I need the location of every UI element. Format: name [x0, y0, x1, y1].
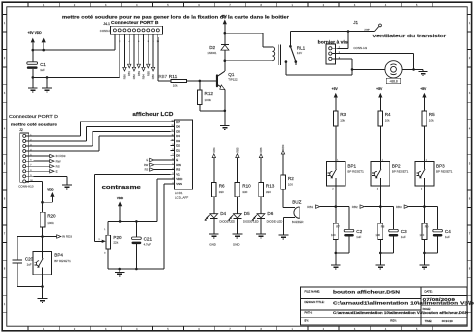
- pushbutton BP2: [371, 162, 390, 186]
- svg-text:2: 2: [173, 178, 174, 180]
- wire +5V to coil top: [225, 32, 263, 34]
- wire J4 pin9: [152, 37, 154, 67]
- P20 wiper arrow: [102, 240, 106, 243]
- terminal RB5 arrow: [147, 64, 150, 68]
- wire R3 to BP1: [335, 126, 337, 162]
- svg-text:BP2: BP2: [392, 163, 401, 168]
- wire bornier pin3: [338, 58, 352, 60]
- svg-text:10k: 10k: [340, 119, 345, 123]
- wire J4 pin4: [128, 37, 130, 64]
- LED D5: [228, 214, 241, 221]
- relay contact dot: [295, 60, 298, 63]
- wire J2 pin2 to LCD D6: [33, 140, 86, 142]
- svg-text:DESIGN TITLE:: DESIGN TITLE:: [305, 300, 325, 304]
- wire R9 bottom: [423, 239, 425, 253]
- svg-text:RB0: RB0: [122, 74, 126, 80]
- svg-text:P20: P20: [113, 235, 122, 240]
- bornier pin numbers: [339, 47, 341, 60]
- svg-text:RB3: RB3: [396, 205, 402, 209]
- wire J2 terminal RW: [33, 160, 49, 162]
- svg-text:00:34:29: 00:34:29: [442, 319, 453, 323]
- svg-text:R3: R3: [340, 112, 346, 117]
- svg-text:1uF: 1uF: [27, 263, 32, 267]
- svg-text:REV:: REV:: [390, 318, 397, 322]
- svg-text:DIODE-LED: DIODE-LED: [267, 220, 283, 224]
- wire C20 branch: [17, 236, 42, 238]
- wire motor right: [402, 68, 423, 70]
- junction dot: [118, 268, 121, 271]
- ground: [420, 264, 430, 266]
- terminal RB1 arrow: [128, 64, 131, 68]
- svg-text:22k: 22k: [113, 240, 118, 244]
- terminal RB2 arrow: [132, 67, 135, 71]
- svg-text:BUZ: BUZ: [292, 200, 301, 205]
- ground: [42, 87, 52, 89]
- wire to IN RD3: [43, 236, 57, 238]
- wire R11 to Q1 base: [187, 80, 216, 82]
- terminal RS arrow: [150, 168, 154, 171]
- wire D4 cathode: [213, 219, 215, 234]
- svg-text:10k: 10k: [429, 119, 434, 123]
- ground: [375, 264, 385, 266]
- resistor R20: [40, 212, 45, 227]
- wire to C2: [336, 206, 349, 208]
- wire gnd stub: [379, 253, 381, 265]
- svg-text:R4: R4: [385, 112, 391, 117]
- svg-text:LCD_AFF: LCD_AFF: [175, 195, 189, 199]
- svg-text:D1: D1: [176, 149, 180, 153]
- ground: [331, 264, 341, 266]
- terminal RB0 arrow: [123, 67, 126, 71]
- wire BP4 top: [42, 237, 44, 252]
- resistor R2: [281, 175, 286, 189]
- terminal RW arrow: [50, 159, 54, 162]
- svg-text:RB5: RB5: [146, 70, 150, 76]
- svg-text:RB2: RB2: [132, 74, 136, 80]
- terminal RB0 arrow: [281, 150, 284, 154]
- wire relay out: [285, 62, 287, 75]
- wire V1 to wiper: [94, 173, 170, 175]
- svg-text:6: 6: [173, 159, 174, 161]
- wire J4 pin7: [143, 37, 145, 67]
- wire relay pole riser: [289, 32, 291, 47]
- svg-text:R20: R20: [47, 214, 56, 219]
- wire GND rail to J4 pin2: [33, 76, 120, 78]
- resistor R4: [378, 111, 383, 126]
- pushbutton BP3: [415, 162, 434, 186]
- svg-text:1: 1: [173, 183, 174, 185]
- bornier pins: [329, 47, 332, 61]
- wire VDD rail: [108, 220, 157, 222]
- junction dot: [199, 80, 202, 83]
- svg-text:BP1: BP1: [347, 163, 356, 168]
- svg-text:FILE NAME:: FILE NAME:: [305, 289, 321, 293]
- ground: [28, 87, 38, 89]
- svg-text:9: 9: [173, 144, 174, 146]
- svg-text:VDD: VDD: [47, 187, 54, 191]
- relay RL1 blade: [290, 46, 295, 61]
- wire R13 to D6: [260, 197, 262, 214]
- terminal RB2 arrow: [360, 205, 364, 208]
- svg-text:RS: RS: [176, 168, 180, 172]
- wire R12 bottom: [199, 105, 201, 111]
- svg-text:R8: R8: [381, 225, 385, 229]
- wire RW to LCD: [154, 164, 170, 166]
- power VDD arrow: [118, 201, 122, 206]
- wire R8 bottom: [379, 239, 381, 253]
- resistor R9: [422, 223, 427, 239]
- svg-text:VDD: VDD: [176, 177, 182, 181]
- wire C1 top: [32, 50, 34, 62]
- ground: [62, 184, 72, 186]
- capacitor C2: [344, 229, 354, 232]
- svg-text:+5V: +5V: [332, 87, 339, 91]
- svg-text:2: 2: [30, 139, 31, 141]
- svg-text:JUMP: JUMP: [364, 30, 370, 32]
- terminal RB1 arrow: [316, 205, 320, 208]
- pushbutton BP1: [326, 162, 345, 186]
- ground: [279, 234, 289, 236]
- wire J4 pin6: [138, 37, 140, 64]
- svg-text:PATH:: PATH:: [305, 310, 313, 314]
- transistor Q1: [216, 61, 225, 111]
- svg-text:4: 4: [173, 168, 174, 170]
- svg-text:+88.8: +88.8: [389, 80, 398, 84]
- wire bornier pin2: [338, 53, 414, 55]
- svg-text:4: 4: [30, 150, 31, 152]
- wire BP4 bottom: [42, 275, 44, 287]
- svg-text:RW: RW: [176, 163, 181, 167]
- svg-text:11: 11: [172, 135, 174, 137]
- svg-text:1uF: 1uF: [40, 68, 45, 72]
- LCD display body: [174, 120, 192, 189]
- junction dot: [379, 252, 382, 255]
- svg-text:mettre coté soudure pour ne pa: mettre coté soudure pour ne pas gener lo…: [62, 14, 289, 19]
- wire D2 cathode: [224, 33, 226, 44]
- svg-text:GND: GND: [233, 242, 241, 246]
- svg-text:J1: J1: [353, 20, 358, 25]
- terminal IN RD3 arrow: [57, 235, 61, 238]
- svg-text:C:\arnaud1\alimentation 10\ali: C:\arnaud1\alimentation 10\alimentation …: [333, 311, 469, 315]
- svg-text:E: E: [56, 169, 58, 173]
- svg-text:Connecteur PORT D: Connecteur PORT D: [9, 114, 58, 119]
- svg-text:RB2: RB2: [352, 205, 358, 209]
- wire C4 bottom: [437, 237, 439, 253]
- resistor R3: [334, 111, 339, 126]
- svg-text:07/08/2009: 07/08/2009: [423, 297, 456, 302]
- wire BP2 bottom: [379, 186, 381, 207]
- svg-text:6: 6: [30, 160, 31, 162]
- junction dot: [41, 201, 44, 204]
- svg-text:RS: RS: [56, 164, 60, 168]
- junction dot: [224, 110, 227, 113]
- wire R7 top: [335, 207, 337, 224]
- wire LCD VSS riser: [164, 183, 170, 185]
- power +5V arrow: [223, 19, 227, 24]
- terminal E arrow: [50, 170, 54, 173]
- wire C2 bottom: [348, 237, 350, 253]
- svg-text:D2: D2: [176, 144, 180, 148]
- junction dot: [423, 252, 426, 255]
- wire C1 bottom: [32, 69, 34, 78]
- title block: [301, 287, 468, 325]
- svg-text:C3: C3: [401, 229, 407, 234]
- svg-text:+5V VDD: +5V VDD: [28, 31, 43, 35]
- J2 pin stubs: [26, 136, 34, 181]
- wire R10 to D5: [236, 197, 238, 214]
- wire RB3: [408, 206, 424, 208]
- svg-text:3: 3: [173, 173, 174, 175]
- svg-text:R11: R11: [169, 74, 178, 80]
- resistor R6: [212, 182, 217, 196]
- J4 pin stubs: [115, 34, 158, 37]
- svg-text:R2: R2: [288, 176, 294, 181]
- svg-text:C1: C1: [40, 62, 46, 67]
- wire RB4 to R6: [213, 158, 215, 183]
- svg-text:IN RD3: IN RD3: [62, 235, 72, 239]
- relay contact dot NC: [285, 60, 288, 63]
- svg-text:RS: RS: [145, 168, 149, 172]
- junction dot: [351, 68, 354, 71]
- svg-text:RB4: RB4: [142, 74, 146, 80]
- svg-text:RL1: RL1: [297, 45, 306, 50]
- svg-text:D5: D5: [176, 129, 180, 133]
- LCD pin stubs: [170, 122, 174, 184]
- svg-text:+5V: +5V: [221, 15, 228, 19]
- wire J2 terminal E: [33, 170, 49, 172]
- wire J2 pin3 to LCD D5: [33, 145, 92, 147]
- wire D6 cathode: [260, 219, 262, 234]
- svg-text:bouton afficheur.DSN: bouton afficheur.DSN: [333, 290, 401, 295]
- svg-text:ventilateur du transistor: ventilateur du transistor: [373, 34, 448, 38]
- wire R20 top: [42, 202, 44, 212]
- wire LCD VDD riser: [157, 178, 170, 180]
- terminal RB5 arrow: [236, 154, 239, 158]
- relay RL1 coil: [272, 45, 280, 65]
- resistor R12: [198, 90, 203, 105]
- wire R5 to BP3: [423, 126, 425, 162]
- junction dot: [41, 235, 44, 238]
- ground: [38, 298, 48, 300]
- svg-text:5: 5: [173, 163, 174, 165]
- wire RS to LCD: [154, 169, 170, 171]
- svg-text:R12: R12: [205, 91, 214, 96]
- wire R12 top: [199, 81, 201, 90]
- resistor R5: [422, 111, 427, 126]
- svg-text:R10: R10: [242, 184, 251, 189]
- svg-text:R13: R13: [266, 184, 275, 189]
- junction dot: [135, 268, 138, 271]
- connector J2 body: [20, 133, 29, 182]
- junction dot: [119, 220, 122, 223]
- connector J2 pins: [23, 134, 26, 182]
- junction dot: [32, 76, 35, 79]
- svg-text:4.7uF: 4.7uF: [144, 242, 152, 246]
- wire J4 pin10 RB7: [157, 37, 159, 81]
- motor ventilateur: [385, 61, 402, 78]
- junction dot: [42, 49, 45, 52]
- wire J4 pin2 to GND rail: [119, 37, 121, 77]
- svg-text:8: 8: [30, 170, 31, 172]
- terminal RW arrow: [150, 163, 154, 166]
- resistor R11: [171, 79, 186, 82]
- J4 pin numbers: [114, 41, 160, 43]
- svg-text:D4: D4: [176, 134, 180, 138]
- junction dot: [335, 252, 338, 255]
- svg-text:J4.1: J4.1: [103, 22, 110, 26]
- svg-text:CONN-H10: CONN-H10: [18, 185, 34, 189]
- svg-text:PAGE:: PAGE:: [423, 307, 432, 311]
- junction dot: [224, 59, 227, 62]
- svg-text:14: 14: [171, 120, 173, 122]
- svg-text:1N4001: 1N4001: [207, 51, 217, 55]
- svg-text:Connecteur PORT B: Connecteur PORT B: [111, 20, 159, 25]
- svg-text:V1: V1: [176, 172, 180, 176]
- junction dot: [412, 68, 415, 71]
- wire J4 pin5: [133, 37, 135, 67]
- svg-text:RB0: RB0: [281, 144, 285, 150]
- capacitor C20: [12, 260, 22, 263]
- jumper J1: [375, 27, 379, 32]
- wire C21 top: [135, 221, 137, 237]
- junction dot: [32, 49, 35, 52]
- wire J1 net: [290, 31, 374, 33]
- svg-text:D6: D6: [267, 211, 273, 216]
- svg-text:J2: J2: [19, 128, 23, 132]
- LCD pin numbers: [171, 120, 173, 184]
- terminal IN RD3 arrow: [50, 154, 54, 157]
- svg-text:TIME:: TIME:: [425, 319, 433, 323]
- wire RB1: [320, 206, 336, 208]
- svg-text:+5V: +5V: [420, 87, 427, 91]
- svg-text:D6: D6: [176, 125, 180, 129]
- relay RL1 pole dot: [289, 45, 292, 48]
- svg-text:+5V: +5V: [376, 87, 383, 91]
- wire emitter gnd stub: [224, 111, 226, 125]
- svg-text:mettre coté soudure: mettre coté soudure: [11, 121, 58, 126]
- svg-text:D4: D4: [220, 211, 226, 216]
- svg-text:RB7: RB7: [159, 74, 168, 79]
- svg-text:1: 1: [30, 134, 31, 136]
- svg-text:RB4: RB4: [212, 147, 216, 153]
- svg-text:CONN-H3: CONN-H3: [353, 46, 367, 50]
- connector bornier body: [326, 44, 335, 64]
- svg-text:E: E: [146, 158, 148, 162]
- ground: [115, 271, 125, 273]
- svg-text:100: 100: [420, 233, 425, 237]
- svg-text:RB3: RB3: [137, 70, 141, 76]
- svg-text:contrasme: contrasme: [102, 185, 141, 191]
- svg-text:BP4: BP4: [54, 253, 63, 258]
- relay contact stub: [295, 62, 297, 65]
- capacitor C1: [27, 62, 38, 65]
- svg-text:RB6: RB6: [259, 147, 263, 153]
- wire R6 to D4: [213, 197, 215, 214]
- wire gnd stub: [46, 77, 48, 88]
- wire to C3: [380, 206, 393, 208]
- wire J2 pin9 to gnd: [33, 175, 67, 177]
- resistor R13: [259, 182, 264, 196]
- svg-text:RW: RW: [144, 163, 149, 167]
- svg-text:BP3: BP3: [436, 163, 445, 168]
- LCD pin labels: [176, 120, 182, 186]
- svg-text:330: 330: [266, 190, 271, 194]
- svg-text:D2: D2: [209, 45, 215, 50]
- svg-text:R9: R9: [425, 225, 429, 229]
- wire gnd stub: [422, 69, 424, 71]
- junction dot: [224, 32, 227, 35]
- junction dot: [423, 205, 426, 208]
- power VDD arrow B: [42, 38, 46, 43]
- LED D6: [252, 214, 265, 221]
- svg-text:BP RESET1: BP RESET1: [54, 259, 71, 263]
- svg-text:100k: 100k: [47, 221, 54, 225]
- capacitor C3: [389, 229, 399, 232]
- resistor R7: [333, 223, 338, 239]
- diode D2: [221, 44, 229, 50]
- wire P20 bottom: [107, 249, 109, 269]
- svg-text:D3: D3: [176, 139, 180, 143]
- junction dot: [335, 205, 338, 208]
- svg-text:IN RD3: IN RD3: [56, 154, 66, 158]
- junction dot: [135, 220, 138, 223]
- ground: [256, 233, 266, 235]
- ground: [220, 124, 230, 126]
- wire R8 top: [379, 207, 381, 224]
- svg-text:1uF: 1uF: [401, 235, 406, 239]
- capacitor C21: [132, 237, 142, 240]
- wire motor left: [352, 68, 385, 70]
- terminal E arrow: [150, 158, 154, 161]
- svg-text:7: 7: [173, 154, 174, 156]
- svg-text:RW: RW: [56, 159, 61, 163]
- svg-text:7: 7: [30, 165, 31, 167]
- terminal RB4 arrow: [142, 67, 145, 71]
- power VDD arrow: [50, 192, 54, 197]
- svg-text:afficheur LCD: afficheur LCD: [132, 112, 173, 118]
- power +5V arrow R3: [334, 93, 338, 98]
- svg-text:100: 100: [331, 233, 336, 237]
- wire RB2: [364, 206, 380, 208]
- svg-text:10: 10: [171, 139, 173, 141]
- wire J4 pin3: [123, 37, 125, 67]
- svg-text:BUZZER: BUZZER: [292, 220, 304, 224]
- svg-text:BP RESET1: BP RESET1: [392, 170, 409, 174]
- svg-text:C2: C2: [356, 229, 362, 234]
- wire BP3 bottom: [423, 186, 425, 207]
- svg-text:12: 12: [171, 130, 173, 132]
- J2 pin numbers: [30, 134, 32, 181]
- resistor R10: [235, 182, 240, 196]
- wire gnd stub: [423, 253, 425, 265]
- svg-text:12V: 12V: [297, 51, 302, 55]
- wire J2 terminal RS: [33, 165, 49, 167]
- svg-text:DIODE-LED: DIODE-LED: [243, 220, 259, 224]
- svg-text:TIP122: TIP122: [228, 78, 238, 82]
- svg-text:D7: D7: [176, 120, 180, 124]
- wire J2 pin1 to LCD D7: [33, 135, 80, 137]
- svg-text:D5: D5: [244, 211, 250, 216]
- wire C20 bottom: [16, 263, 18, 287]
- svg-text:E: E: [176, 158, 178, 162]
- svg-text:BP RESET1: BP RESET1: [347, 170, 364, 174]
- wire +5V rail to J4 pin1: [33, 49, 115, 51]
- junction dot: [41, 285, 44, 288]
- ground: [419, 71, 428, 73]
- svg-text:D0: D0: [176, 153, 180, 157]
- wire J2 terminal IN RD3: [33, 155, 49, 157]
- capacitor C4: [433, 229, 443, 232]
